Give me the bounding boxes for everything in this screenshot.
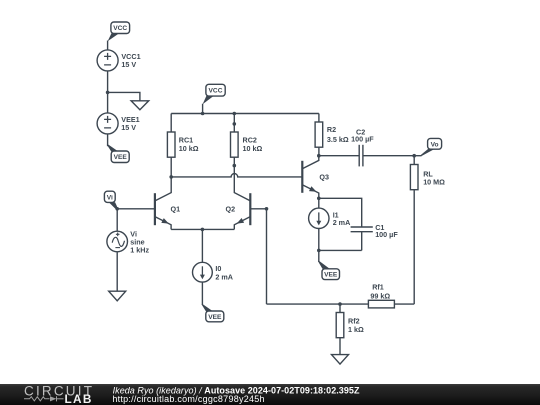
svg-text:VEE: VEE: [114, 154, 128, 161]
svg-text:100 µF: 100 µF: [375, 230, 398, 239]
svg-text:10 MΩ: 10 MΩ: [423, 177, 445, 186]
svg-text:1 kΩ: 1 kΩ: [348, 325, 364, 334]
svg-text:VCC: VCC: [209, 88, 223, 95]
svg-text:2 mA: 2 mA: [333, 218, 351, 227]
svg-text:100 µF: 100 µF: [351, 134, 374, 143]
svg-text:Q1: Q1: [171, 205, 181, 214]
svg-text:Q2: Q2: [226, 205, 236, 214]
svg-text:1 kHz: 1 kHz: [130, 246, 149, 255]
svg-text:Vo: Vo: [431, 141, 439, 148]
svg-text:10 kΩ: 10 kΩ: [243, 144, 263, 153]
svg-text:R2: R2: [327, 125, 336, 134]
svg-text:VEE: VEE: [208, 314, 222, 321]
svg-text:Rf1: Rf1: [372, 282, 384, 291]
svg-text:15 V: 15 V: [121, 123, 136, 132]
svg-text:LAB: LAB: [65, 392, 93, 405]
svg-text:3.5 kΩ: 3.5 kΩ: [327, 135, 349, 144]
svg-text:10 kΩ: 10 kΩ: [179, 144, 199, 153]
svg-text:VCC: VCC: [113, 25, 127, 32]
svg-text:2 mA: 2 mA: [215, 272, 233, 281]
svg-text:Vi: Vi: [107, 195, 113, 202]
svg-text:http://circuitlab.com/cggc8798: http://circuitlab.com/cggc8798y245h: [112, 394, 264, 404]
svg-text:VEE: VEE: [324, 272, 338, 279]
svg-text:Q3: Q3: [319, 172, 329, 181]
svg-text:15 V: 15 V: [121, 60, 136, 69]
svg-text:99 kΩ: 99 kΩ: [370, 291, 390, 300]
